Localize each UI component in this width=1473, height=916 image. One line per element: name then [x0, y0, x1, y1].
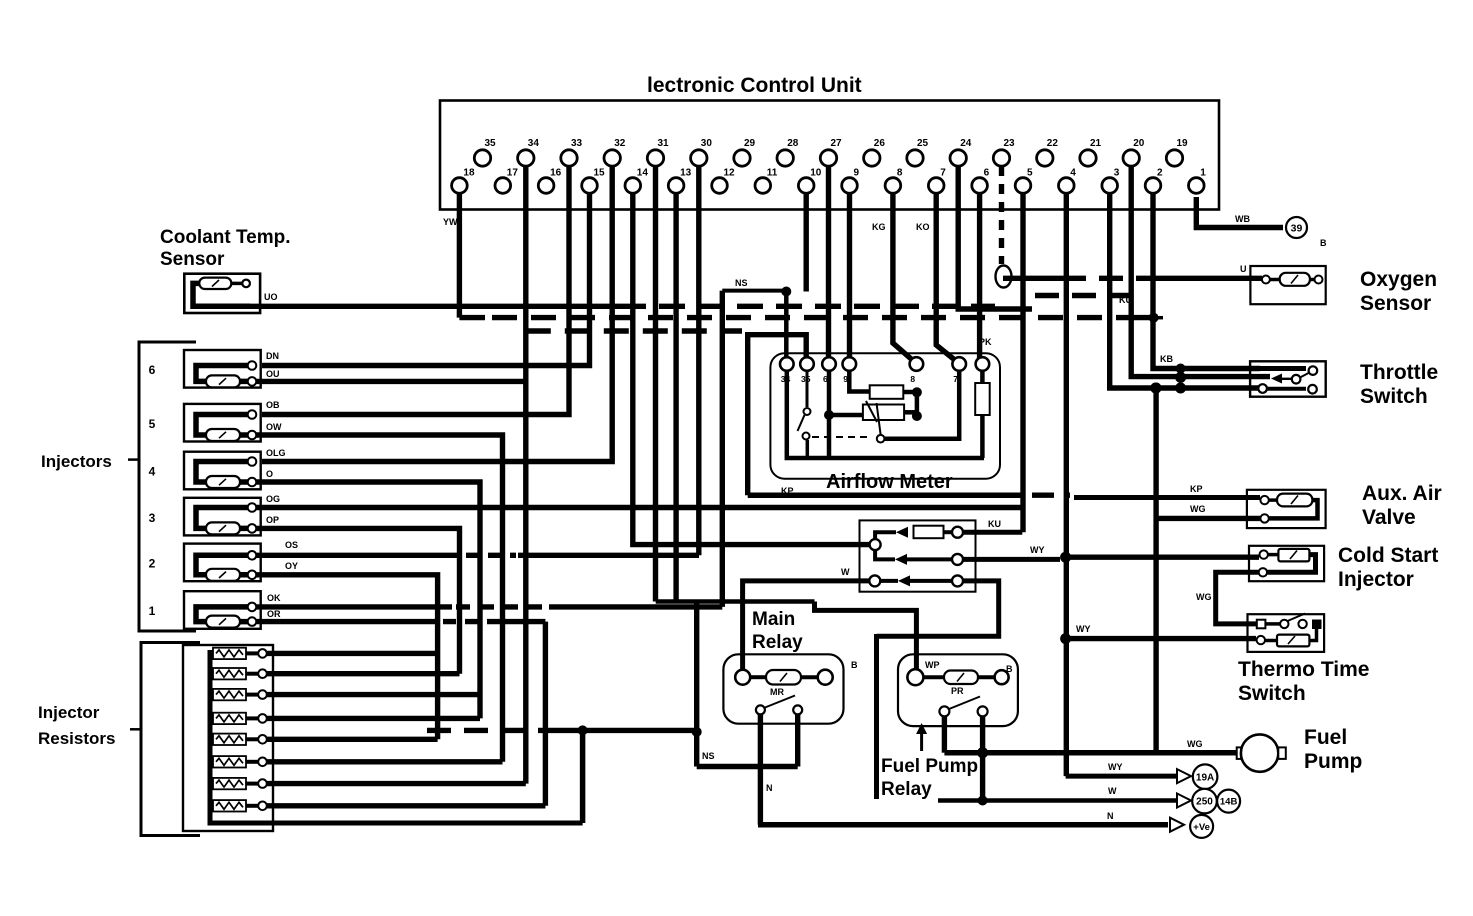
wire pin10 drop to NS	[804, 193, 809, 292]
injector 3	[184, 498, 261, 536]
svg-text:W: W	[841, 567, 850, 577]
wire KP dash gap	[1032, 493, 1070, 498]
wire KP branch to airflow t2	[748, 335, 807, 496]
ECU pin 34	[518, 150, 534, 166]
airflow meter terminal 4	[843, 357, 857, 371]
thermo block terminal	[1312, 620, 1322, 630]
svg-text:Airflow Meter: Airflow Meter	[826, 471, 953, 493]
ECU pin 7	[928, 178, 944, 194]
svg-text:O: O	[266, 469, 273, 479]
wire U wire dashed	[1062, 276, 1150, 281]
wire row2	[267, 671, 460, 676]
wire pack top link2	[944, 530, 953, 534]
svg-text:OLG: OLG	[266, 448, 286, 458]
svg-text:Oxygen: Oxygen	[1360, 268, 1437, 291]
injector 1 terminals	[248, 603, 257, 612]
wire pin6 drop to airflow t7	[977, 193, 982, 360]
wire NS lower vertical	[694, 602, 699, 767]
svg-text:OR: OR	[267, 609, 281, 619]
wire pin34/OU riser to row7	[523, 166, 528, 784]
wire mr contact R drop	[795, 714, 800, 766]
wire OS solid right	[518, 553, 699, 558]
svg-text:5: 5	[1027, 168, 1033, 179]
junction	[977, 747, 988, 758]
ECU pin 27	[820, 150, 836, 166]
wire pin5 KU drop	[1020, 193, 1025, 532]
ECU pin 28	[777, 150, 793, 166]
wire row3	[267, 692, 480, 697]
wire KP to aux air valve	[1074, 495, 1260, 500]
svg-text:NS: NS	[702, 751, 715, 761]
wire OW riser to row6	[256, 435, 503, 762]
connector 250	[1192, 789, 1217, 814]
injector 4	[184, 452, 261, 490]
svg-text:25: 25	[917, 138, 929, 149]
wire aux internal wrap	[1269, 500, 1318, 518]
svg-text:13: 13	[680, 168, 692, 179]
wire OY riser to rows 1 2 5	[256, 575, 438, 740]
ECU pin 24	[950, 150, 966, 166]
ECU pin 2	[1145, 178, 1161, 194]
injector 6 terminals	[248, 361, 257, 370]
junction	[912, 411, 922, 421]
ECU Electronic Control Unit box	[440, 101, 1219, 210]
junction	[978, 796, 988, 806]
svg-text:KO: KO	[916, 222, 930, 232]
resistor R4	[210, 716, 213, 720]
wire resistor label tick	[130, 728, 141, 731]
svg-text:W: W	[1108, 786, 1117, 796]
svg-text:Coolant Temp.: Coolant Temp.	[160, 227, 291, 248]
switch contact b	[803, 433, 810, 440]
junction on pin2 line	[1149, 313, 1159, 323]
injector 6 coil capsule	[206, 375, 240, 387]
injector 5	[184, 404, 261, 442]
svg-text:24: 24	[960, 138, 972, 149]
svg-text:Resistors: Resistors	[38, 729, 115, 748]
wire NS vertical	[720, 291, 725, 607]
wire NS to main relay contact	[697, 764, 798, 769]
wire pin3 to throttle bottom	[1110, 193, 1260, 388]
wire OK solid left	[256, 604, 452, 609]
svg-text:7: 7	[940, 168, 946, 179]
svg-text:Valve: Valve	[1362, 506, 1416, 529]
wire fpr contact L drop	[942, 716, 947, 752]
wire WY to connector 19A	[1066, 774, 1176, 779]
throttle wiper arm	[1271, 374, 1282, 384]
svg-text:1: 1	[149, 604, 156, 618]
resistor R1	[210, 651, 213, 655]
oxygen terminal L	[1262, 276, 1270, 284]
Airflow Meter box	[770, 353, 1000, 479]
wire t3 to bottom bus	[827, 371, 832, 460]
svg-text:B: B	[1006, 664, 1013, 674]
svg-text:MR: MR	[770, 687, 784, 697]
wire UO bus dashed part	[620, 304, 995, 309]
wire mr coil link2	[801, 675, 818, 679]
ECU pin 3	[1102, 178, 1118, 194]
svg-text:Sensor: Sensor	[1360, 292, 1431, 315]
svg-text:WG: WG	[1187, 739, 1203, 749]
thermo contact a	[1280, 620, 1288, 628]
wire KP run	[748, 492, 1024, 498]
ECU pin 8	[885, 178, 901, 194]
svg-text:Injector: Injector	[1338, 568, 1414, 591]
wire pin24 KU stub	[958, 166, 1032, 309]
wire row1	[267, 651, 438, 656]
wire pack bot link	[880, 579, 898, 583]
feed arrow into fuel pump relay	[920, 733, 923, 751]
svg-text:Fuel: Fuel	[1304, 726, 1347, 749]
wire UO bus solid part	[248, 304, 620, 309]
wire pack mid link2	[907, 557, 952, 561]
wire OU	[256, 379, 526, 384]
ECU pin 5	[1015, 178, 1031, 194]
wire OR dashes	[443, 619, 503, 624]
thermo contact b	[1298, 620, 1306, 628]
svg-text:20: 20	[1133, 138, 1145, 149]
thermo bottom terminal	[1257, 636, 1265, 644]
ECU pin 10	[798, 178, 814, 194]
svg-text:29: 29	[744, 138, 756, 149]
arrow W	[1177, 794, 1191, 808]
svg-text:2: 2	[1157, 168, 1163, 179]
main relay coil terminal R	[818, 670, 833, 685]
svg-text:KU: KU	[988, 519, 1001, 529]
svg-text:15: 15	[594, 168, 606, 179]
wire airflow switch lead	[806, 371, 809, 408]
svg-text:9: 9	[854, 168, 860, 179]
wire rtop to junction	[903, 390, 917, 395]
svg-text:OU: OU	[266, 369, 280, 379]
wire pin20 to throttle middle	[1131, 166, 1270, 377]
wire coolant sensor internal	[193, 283, 250, 306]
svg-text:4: 4	[149, 465, 156, 479]
throttle terminal top right	[1309, 366, 1318, 375]
wire injector label tick	[128, 458, 139, 461]
wire NS dashed link	[427, 728, 550, 733]
wire fpr coil link2	[978, 675, 995, 679]
injector 1 coil capsule	[206, 616, 240, 628]
wire pin32 to OLG	[262, 166, 612, 462]
ECU pin 33	[561, 150, 577, 166]
wire cs link	[1268, 553, 1279, 557]
wire pin9 drop to airflow t4	[847, 193, 852, 360]
thermo switch arm	[1288, 614, 1306, 622]
main relay coil capsule MR	[766, 670, 801, 685]
ECU pin 18	[452, 178, 468, 194]
ECU pin 17	[495, 178, 511, 194]
Cold Start Injector box	[1249, 546, 1324, 581]
junction	[781, 287, 791, 297]
svg-text:Relay: Relay	[881, 779, 932, 800]
airflow meter terminal 3	[822, 357, 836, 371]
wire pack common riser	[580, 730, 586, 823]
junction	[824, 410, 834, 420]
ECU pin 26	[864, 150, 880, 166]
wire N drop from main relay	[758, 714, 763, 824]
wire resistor pack common bus	[210, 650, 583, 823]
svg-text:Main: Main	[752, 609, 795, 630]
coolant sensor box	[184, 274, 260, 313]
ECU pin 11	[755, 178, 771, 194]
wire pin2 to throttle top	[1153, 193, 1260, 369]
svg-text:16: 16	[550, 168, 562, 179]
injector 2 terminals	[248, 551, 257, 560]
injector 2	[184, 544, 261, 582]
resistor R8	[210, 804, 213, 808]
oxygen terminal R	[1315, 276, 1323, 284]
arrow N	[1170, 818, 1184, 832]
resistor R6	[210, 760, 213, 764]
airflow meter terminal 6	[952, 357, 966, 371]
fp relay coil terminal L	[907, 669, 923, 685]
dashed wiper link	[812, 436, 872, 438]
wire OR solid right	[505, 619, 545, 624]
svg-text:Aux. Air: Aux. Air	[1362, 482, 1442, 505]
junction	[1060, 552, 1071, 563]
wire pack bottom out	[877, 581, 999, 636]
wire stub right of junction	[1153, 316, 1163, 320]
svg-text:17: 17	[507, 168, 519, 179]
wire OK dashes	[456, 604, 546, 609]
wire oxy link2	[1310, 278, 1315, 282]
svg-text:Switch: Switch	[1360, 385, 1428, 408]
Fuel Pump Relay box	[898, 654, 1018, 726]
junction	[578, 725, 588, 735]
svg-text:B: B	[851, 660, 858, 670]
wire t4 to resistor	[849, 371, 869, 392]
ECU pin 30	[691, 150, 707, 166]
injectors bracket	[139, 342, 196, 631]
svg-text:OW: OW	[266, 422, 282, 432]
airflow meter terminal 5	[910, 357, 924, 371]
injector 6	[184, 350, 261, 388]
svg-text:U: U	[1240, 264, 1247, 274]
coolant sensor element capsule	[199, 278, 231, 289]
resistor R2	[210, 672, 213, 676]
ECU pin 13	[668, 178, 684, 194]
wire jog across to relay feed	[656, 599, 815, 604]
svg-text:1: 1	[1200, 168, 1206, 179]
ECU pin 15	[582, 178, 598, 194]
wire W to connector 250	[938, 798, 1176, 803]
main relay coil terminal L	[735, 670, 750, 685]
svg-text:Sensor: Sensor	[160, 249, 225, 270]
ECU pin 16	[538, 178, 554, 194]
svg-text:Thermo Time: Thermo Time	[1238, 658, 1369, 681]
resistor R3	[210, 693, 213, 697]
junction	[1150, 383, 1161, 394]
inline connector 39	[1286, 217, 1307, 238]
svg-text:Cold Start: Cold Start	[1338, 544, 1438, 567]
connector +Ve	[1190, 815, 1213, 838]
svg-text:10: 10	[810, 168, 822, 179]
wire airflow internal bottom bus	[787, 371, 984, 459]
svg-text:PK: PK	[979, 337, 992, 347]
ECU pin 20	[1123, 150, 1139, 166]
wire row4	[267, 716, 480, 721]
svg-text:14: 14	[637, 168, 649, 179]
svg-text:YW: YW	[443, 217, 458, 227]
wire KU wire	[963, 530, 1022, 535]
pack right terminal top	[952, 527, 963, 538]
wire row5	[267, 737, 438, 742]
svg-text:OS: OS	[285, 540, 298, 550]
wire pin15 to DN	[262, 193, 590, 366]
svg-text:UO: UO	[264, 292, 278, 302]
junction WG top	[1151, 383, 1162, 394]
svg-text:5: 5	[149, 417, 156, 431]
pack right terminal mid	[952, 554, 963, 565]
injector 5 terminals	[248, 410, 257, 419]
injector 4 terminals	[248, 457, 257, 466]
svg-text:39: 39	[1291, 223, 1303, 235]
pack left terminal B	[869, 575, 880, 586]
injector 5 coil capsule	[206, 429, 240, 441]
svg-text:21: 21	[1090, 138, 1102, 149]
resistor R5	[210, 737, 213, 741]
throttle top contact wire	[1260, 366, 1306, 371]
injector 4 coil capsule	[206, 476, 240, 488]
wire YW bus dashed part	[492, 315, 1122, 320]
svg-text:OP: OP	[266, 515, 279, 525]
airflow meter terminal 7	[976, 357, 990, 371]
wiper arm	[877, 403, 881, 435]
wire fpr coil link	[923, 675, 944, 679]
svg-text:OG: OG	[266, 494, 280, 504]
svg-text:3: 3	[149, 511, 156, 525]
svg-text:Injector: Injector	[38, 703, 100, 722]
svg-text:WG: WG	[1190, 504, 1206, 514]
Main Relay box	[723, 654, 843, 723]
fp relay coil terminal R	[995, 670, 1009, 684]
wire pin30 drop to OS	[696, 166, 701, 555]
oxygen sensor element	[1280, 273, 1310, 286]
Aux Air Valve box	[1247, 490, 1326, 528]
svg-text:+Ve: +Ve	[1193, 822, 1210, 833]
pack right terminal bottom	[952, 575, 963, 586]
svg-text:Pump: Pump	[1304, 750, 1362, 773]
svg-text:KB: KB	[1160, 354, 1173, 364]
injector 1	[184, 591, 261, 629]
Fuel Pump motor	[1237, 747, 1245, 759]
wire OK solid right	[549, 604, 722, 609]
ECU pin 23	[993, 150, 1009, 166]
wire junction link	[915, 392, 920, 416]
wire row8	[267, 803, 545, 808]
ECU pin 12	[712, 178, 728, 194]
wire thermo link	[1265, 622, 1280, 626]
airflow potentiometer	[863, 405, 904, 421]
wire row7	[267, 781, 526, 786]
junction	[1175, 372, 1186, 383]
wire t3 branch to pot	[829, 413, 863, 418]
wire OP riser to row2	[256, 528, 460, 673]
svg-text:18: 18	[463, 168, 475, 179]
ECU pin 19	[1166, 150, 1182, 166]
resistor diode pack box	[860, 520, 976, 591]
wire pin27 drop to airflow t3	[826, 166, 831, 360]
svg-text:8: 8	[897, 168, 903, 179]
svg-text:WG: WG	[1196, 592, 1212, 602]
fuel pump relay coil capsule PR	[944, 671, 978, 685]
injector resistors bracket	[141, 643, 200, 836]
svg-text:33: 33	[571, 138, 583, 149]
svg-text:PR: PR	[951, 686, 964, 696]
svg-text:4: 4	[1070, 168, 1076, 179]
wire OG to pin5 vertical	[256, 505, 1022, 510]
wire cs internal wrap	[1267, 555, 1315, 573]
svg-text:WY: WY	[1030, 545, 1045, 555]
svg-text:6: 6	[984, 168, 990, 179]
wire OS dashes	[466, 553, 516, 558]
wire NS drop to airflow t1	[784, 292, 789, 361]
wire mr coil link	[750, 675, 766, 679]
svg-text:Injectors: Injectors	[41, 452, 112, 471]
wire bus4 short dashed	[1035, 293, 1133, 298]
svg-text:22: 22	[1047, 138, 1059, 149]
wire WY to thermo time switch	[1066, 636, 1256, 641]
svg-text:OY: OY	[285, 561, 298, 571]
svg-text:8: 8	[910, 374, 915, 384]
switch contact a	[804, 408, 811, 415]
junction	[912, 387, 922, 397]
wire YW from pin 18	[457, 193, 462, 318]
svg-text:35: 35	[485, 138, 497, 149]
injector 3 terminals	[248, 503, 257, 512]
pack left terminal A	[870, 539, 881, 550]
wire YW bus solid part	[459, 315, 485, 320]
svg-text:19A: 19A	[1196, 772, 1214, 783]
svg-text:N: N	[1107, 811, 1114, 821]
svg-text:19: 19	[1177, 138, 1189, 149]
injector resistors box	[183, 645, 273, 831]
svg-text:WB: WB	[1235, 214, 1250, 224]
wire t6 to wiper	[884, 371, 959, 439]
svg-text:3: 3	[1114, 168, 1120, 179]
wire KG pin8 to airflow t5	[893, 193, 917, 364]
svg-text:23: 23	[1004, 138, 1016, 149]
wire pin33 to OB	[262, 166, 569, 415]
wire W wire to main relay	[743, 581, 870, 672]
airflow meter terminal 2	[800, 357, 814, 371]
ECU pin 21	[1080, 150, 1096, 166]
ECU pin 4	[1059, 178, 1075, 194]
svg-text:Relay: Relay	[752, 632, 803, 653]
wire NS horizontal	[722, 289, 789, 293]
connector 14B	[1217, 790, 1240, 813]
wire fpr contact R drop W	[980, 716, 985, 800]
svg-text:26: 26	[874, 138, 886, 149]
Throttle Switch box	[1250, 361, 1326, 396]
ECU pin 25	[907, 150, 923, 166]
wire thermo link2	[1265, 639, 1277, 643]
wire pin4 long drop	[1064, 193, 1069, 776]
cold start terminal 2	[1259, 568, 1267, 576]
wire WG fuel pump feed	[944, 750, 1236, 756]
wire oxy link	[1270, 278, 1280, 282]
wire pin31 long drop	[653, 166, 658, 602]
wiper contact	[877, 435, 885, 443]
thermo top terminal square	[1257, 620, 1266, 629]
ECU pin 9	[842, 178, 858, 194]
connector loop on pin23 line	[996, 266, 1012, 288]
svg-text:B: B	[1320, 238, 1327, 248]
svg-text:Throttle: Throttle	[1360, 361, 1438, 384]
wire pack mid link	[875, 550, 895, 559]
wire YW bus right end	[1122, 315, 1150, 320]
